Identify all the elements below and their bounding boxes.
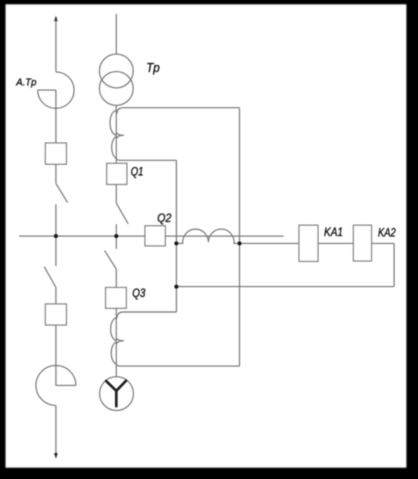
wire: bus to Q3 switch xyxy=(115,236,117,249)
wire: right return drop xyxy=(393,243,395,286)
svg-text:Q2: Q2 xyxy=(157,211,171,225)
motor winding tap (top) xyxy=(117,312,177,318)
disconnector blade (left upper) xyxy=(56,183,68,202)
disconnector blade (left lower) xyxy=(44,267,56,287)
winding cusp hook xyxy=(116,133,124,139)
wire: return line xyxy=(176,286,394,288)
junction dot: return line tap xyxy=(174,285,178,289)
svg-text:Q1: Q1 xyxy=(131,165,144,179)
winding tap (bottom) xyxy=(120,159,177,161)
transformer Tp circle 1 xyxy=(99,54,133,88)
wire: KA2 to right edge xyxy=(372,242,395,244)
wire: symbol to outgoing arrow xyxy=(55,405,57,454)
wire: left feeder drop xyxy=(55,20,57,72)
svg-text:Tp: Tp xyxy=(146,60,160,75)
motor M circle xyxy=(100,377,134,411)
bottom-left symbol radius line xyxy=(56,384,76,386)
A.Tp symbol (3/4 circle) xyxy=(38,72,74,108)
wire: KA1 to KA2 xyxy=(318,242,353,244)
fuse box (left lower) xyxy=(45,304,66,325)
reactor L (two humps) xyxy=(176,229,239,243)
mid loop vertical wire xyxy=(175,160,177,312)
wire: box to bottom symbol xyxy=(55,325,57,385)
outgoing feeder arrow (bottom left) xyxy=(54,453,58,459)
right loop vertical wire xyxy=(239,108,241,366)
wire: through motor winding xyxy=(115,308,117,376)
winding loop 1 xyxy=(110,111,116,135)
breaker Q2 box xyxy=(145,226,165,246)
fuse box (left upper) xyxy=(45,143,66,164)
svg-text:A.Tp: A.Tp xyxy=(15,77,36,89)
incoming feeder arrow (top left) xyxy=(54,16,58,22)
bottom-left symbol (3/4 circle) xyxy=(36,365,76,405)
junction dot: transformer column on bus xyxy=(114,234,118,238)
wire: blade to Q3 xyxy=(115,269,117,288)
motor winding loop 1 xyxy=(111,318,117,341)
svg-text:Q3: Q3 xyxy=(132,286,145,300)
motor star symbol xyxy=(105,380,127,407)
A.Tp symbol radius line xyxy=(38,89,56,91)
wire: Q1 to switch xyxy=(115,184,117,203)
main bus bar xyxy=(19,235,284,237)
svg-text:KA2: KA2 xyxy=(378,226,396,240)
junction dot: left feeder on bus xyxy=(54,234,58,238)
motor winding loop 2 xyxy=(111,342,120,366)
junction dot: reactor right xyxy=(237,241,241,245)
wire: A.Tp center to box xyxy=(55,90,57,143)
motor winding cusp hook xyxy=(116,338,124,344)
svg-text:KA1: KA1 xyxy=(324,225,343,239)
junction dot: reactor left xyxy=(174,241,178,245)
wire: bus to lower-left switch xyxy=(55,236,57,266)
wire: reactor to KA1 xyxy=(240,242,300,244)
wire: switch to bus xyxy=(55,204,57,236)
wire: through secondary winding xyxy=(115,105,117,163)
relay coil KA2 xyxy=(353,225,371,261)
breaker Q1 box xyxy=(107,163,127,184)
disconnector blade Q3 xyxy=(105,251,117,269)
wire: switch to bus xyxy=(115,224,117,236)
winding loop 2 xyxy=(112,136,120,160)
relay coil KA1 xyxy=(299,225,318,261)
breaker Q3 box xyxy=(106,288,127,309)
motor winding tap (bottom) xyxy=(120,365,240,367)
disconnector blade Q1 xyxy=(116,203,128,224)
wire: box to switch xyxy=(55,164,57,183)
wire: blade to box xyxy=(55,287,57,304)
transformer Tp circle 2 xyxy=(99,72,133,106)
wire: top of transformer column xyxy=(115,14,117,54)
winding tap (top) to right loop xyxy=(117,108,240,115)
